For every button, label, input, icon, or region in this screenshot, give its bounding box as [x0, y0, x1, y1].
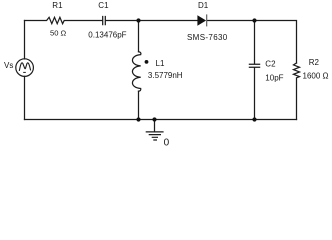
svg-text:SMS-7630: SMS-7630: [187, 33, 228, 42]
svg-text:D1: D1: [198, 1, 209, 10]
svg-text:3.5779nH: 3.5779nH: [148, 71, 183, 80]
svg-text:0: 0: [164, 138, 170, 149]
svg-text:R2: R2: [309, 58, 320, 67]
svg-text:1600 Ω: 1600 Ω: [303, 71, 329, 80]
svg-text:R1: R1: [52, 1, 63, 10]
svg-text:10pF: 10pF: [265, 73, 283, 82]
svg-text:C2: C2: [265, 59, 276, 68]
svg-text:L1: L1: [156, 59, 165, 68]
svg-text:50 Ω: 50 Ω: [50, 29, 67, 38]
svg-text:C1: C1: [98, 1, 109, 10]
svg-text:0.13476pF: 0.13476pF: [88, 30, 126, 39]
svg-text:Vs: Vs: [4, 61, 13, 70]
